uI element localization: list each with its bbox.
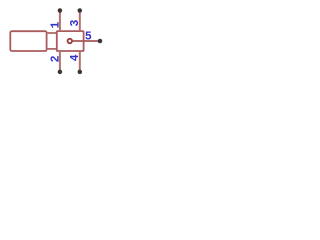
svg-text:2: 2 [49, 55, 62, 62]
pin 2 wire [59, 51, 61, 72]
pin 4 wire [79, 51, 81, 72]
node dot pin 1 [58, 8, 63, 13]
coil body box [10, 31, 46, 51]
link rail top [47, 32, 57, 34]
node dot pin 4 [78, 70, 83, 75]
wire pin 5 [72, 40, 98, 42]
svg-text:5: 5 [85, 31, 92, 44]
contact housing box [57, 31, 84, 51]
svg-text:4: 4 [69, 54, 82, 61]
pivot circle [68, 39, 72, 43]
node dot pin 5 [98, 39, 103, 44]
pin 1 wire [59, 11, 61, 32]
node dot pin 3 [78, 8, 83, 13]
pin 3 wire [79, 11, 81, 32]
svg-text:3: 3 [69, 19, 82, 26]
link rail bottom [47, 48, 57, 50]
node dot pin 2 [58, 70, 63, 75]
svg-text:1: 1 [49, 21, 62, 28]
